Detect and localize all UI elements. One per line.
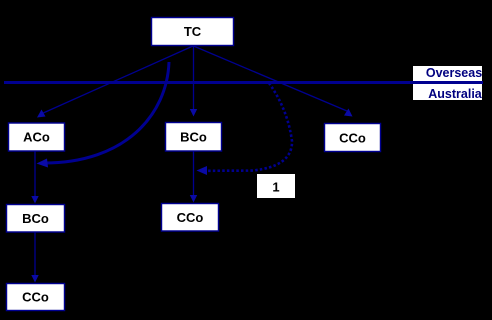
- svg-text:1: 1: [272, 180, 279, 195]
- svg-text:CCo: CCo: [22, 290, 49, 305]
- arrowhead of thick curve: [37, 159, 49, 168]
- wire TC to ACo: [41, 46, 193, 114]
- wire TC to CCo: [194, 46, 348, 111]
- wire BCo left to CCo left: [34, 232, 36, 276]
- arrowhead into ACo: [37, 110, 46, 118]
- svg-text:ACo: ACo: [23, 130, 50, 145]
- node 1 box: [257, 174, 295, 198]
- svg-text:BCo: BCo: [180, 130, 207, 145]
- arrowhead into CCo mid: [190, 195, 197, 203]
- arrowhead into CCo right: [344, 109, 353, 117]
- border line Overseas/Australia: [4, 81, 483, 84]
- box TC: [152, 18, 234, 46]
- svg-text:Australia: Australia: [428, 87, 483, 101]
- arrowhead into BCo left: [31, 196, 38, 204]
- arrowhead of dashed curve: [197, 166, 208, 175]
- box BCo left: [7, 205, 65, 233]
- dashed curved arrow to node 1: [206, 83, 292, 171]
- wire ACo to BCo left: [34, 152, 36, 198]
- label box Overseas/Australia: [413, 66, 482, 100]
- svg-text:Overseas: Overseas: [426, 66, 482, 80]
- svg-text:CCo: CCo: [339, 131, 366, 146]
- thick curved arrow TC area to left column: [44, 62, 169, 163]
- box CCo right: [325, 124, 381, 152]
- arrowhead into BCo: [190, 109, 197, 117]
- wire TC to BCo: [193, 46, 195, 110]
- box BCo mid: [166, 123, 222, 152]
- svg-text:BCo: BCo: [22, 211, 49, 226]
- svg-text:TC: TC: [184, 24, 202, 39]
- box CCo mid: [162, 204, 219, 232]
- arrowhead into CCo left: [31, 275, 38, 283]
- wire BCo mid to CCo mid: [193, 152, 195, 197]
- svg-text:CCo: CCo: [177, 210, 204, 225]
- box ACo: [9, 123, 65, 151]
- box CCo left: [7, 284, 65, 311]
